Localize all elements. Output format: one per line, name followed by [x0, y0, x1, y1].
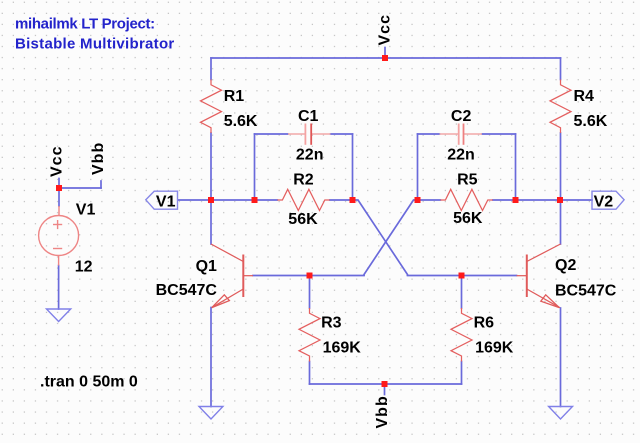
svg-text:169K: 169K: [323, 340, 362, 357]
wire top rail Vcc: [211, 57, 561, 59]
svg-text:22n: 22n: [296, 147, 324, 164]
wire Vbb stub bottom: [384, 384, 386, 395]
wire cross diagonal right-to-left: [364, 200, 418, 275]
wire cross diagonal left-to-right: [353, 200, 408, 275]
wire C2 top right: [482, 133, 516, 135]
junction node R3 top / Q1 base: [307, 273, 313, 279]
svg-text:V2: V2: [594, 194, 614, 211]
svg-text:22n: 22n: [447, 147, 475, 164]
ground V1: [47, 309, 71, 322]
wire Q2 emitter to ground: [560, 308, 562, 407]
svg-text:BC547C: BC547C: [555, 283, 617, 300]
wire C1 top left: [255, 133, 289, 135]
resistor R4: [550, 80, 571, 134]
transistor Q1: [211, 244, 253, 308]
wire R2 right: [330, 199, 353, 201]
svg-text:R1: R1: [224, 88, 245, 105]
resistor R1: [201, 80, 222, 134]
junction node R5/C2 left: [415, 197, 421, 203]
transistor Q2: [517, 244, 561, 308]
junction node Vcc top rail: [382, 55, 388, 61]
svg-text:12: 12: [75, 259, 93, 276]
wire Q2 base rail: [408, 275, 517, 277]
svg-text:Vbb: Vbb: [90, 142, 107, 175]
wire right rail to V2: [516, 199, 593, 201]
junction node V2 collector Q2: [557, 197, 563, 203]
svg-text:5.6K: 5.6K: [224, 113, 258, 130]
svg-text:R3: R3: [321, 315, 342, 332]
wire R1 bottom to V1 node: [210, 133, 212, 200]
svg-text:C1: C1: [298, 108, 319, 125]
svg-text:Vbb: Vbb: [374, 395, 391, 428]
wire C2 top left: [418, 133, 440, 135]
wire R3 top: [309, 276, 311, 309]
svg-text:.tran 0 50m 0: .tran 0 50m 0: [40, 374, 138, 391]
svg-text:56K: 56K: [453, 210, 483, 227]
wire C1 top right: [331, 133, 353, 135]
wire Q1 base rail: [253, 275, 364, 277]
svg-text:56K: 56K: [288, 211, 318, 228]
wire Q2 collector vertical: [560, 200, 562, 244]
wire R5 right: [493, 199, 516, 201]
wire R1 top: [210, 58, 212, 80]
wire Vbb stub left: [100, 181, 102, 188]
junction node Vcc source top: [56, 185, 62, 191]
resistor R5: [440, 189, 493, 210]
junction node V1 collector Q1: [208, 197, 214, 203]
wire bottom rail Vbb: [310, 383, 462, 385]
junction node R2/C1 right: [350, 197, 356, 203]
resistor R2: [277, 189, 330, 210]
net flag V2: [592, 191, 624, 209]
svg-text:Q1: Q1: [196, 258, 217, 275]
svg-text:V1: V1: [156, 194, 176, 211]
svg-text:Bistable Multivibrator: Bistable Multivibrator: [15, 36, 175, 53]
svg-text:mihailmk LT Project:: mihailmk LT Project:: [15, 16, 155, 33]
wire R5 left: [418, 199, 441, 201]
junction node R2/C1 left: [252, 197, 258, 203]
svg-text:V1: V1: [76, 202, 96, 219]
wire R2 left: [255, 199, 278, 201]
wire C2 right vertical: [515, 134, 517, 200]
wire Q1 emitter to ground: [210, 308, 212, 407]
wire C1 right vertical: [352, 134, 354, 200]
wire Vcc label stub left: [58, 179, 60, 189]
svg-text:BC547C: BC547C: [156, 282, 218, 299]
svg-text:Vcc: Vcc: [377, 14, 394, 45]
voltage source V1: [39, 206, 79, 266]
svg-text:Q2: Q2: [555, 257, 576, 274]
wire Vcc stub top: [384, 48, 386, 59]
capacitor C1: [288, 124, 331, 145]
net flag V1: [146, 191, 178, 209]
svg-text:R5: R5: [457, 172, 478, 189]
wire V1 flag to node: [179, 199, 212, 201]
wire R3 bottom: [309, 362, 311, 385]
wire C2 left vertical: [417, 134, 419, 200]
junction node Vbb bottom rail: [382, 381, 388, 387]
wire R4 top: [560, 58, 562, 80]
wire Q1 collector vertical: [210, 200, 212, 244]
wire V1 node rail: [211, 199, 255, 201]
ground Q1: [199, 407, 223, 420]
svg-text:R6: R6: [474, 315, 495, 332]
wire R6 top: [461, 276, 463, 309]
resistor R3: [299, 308, 320, 362]
junction node R5/C2 right: [513, 197, 519, 203]
resistor R6: [451, 308, 472, 362]
junction node R6 top / Q2 base: [459, 273, 465, 279]
svg-text:R2: R2: [293, 172, 314, 189]
svg-text:Vcc: Vcc: [49, 146, 66, 177]
svg-text:R4: R4: [574, 88, 595, 105]
svg-text:169K: 169K: [475, 340, 514, 357]
capacitor C2: [440, 124, 483, 145]
ground Q2: [549, 407, 573, 420]
wire Vcc to Vbb link: [59, 187, 101, 189]
wire R4 bottom: [560, 133, 562, 200]
wire C1 left vertical: [254, 134, 256, 200]
svg-text:5.6K: 5.6K: [574, 113, 608, 130]
svg-text:C2: C2: [451, 108, 472, 125]
wire V1 source top: [58, 188, 60, 206]
wire V1 source bottom: [58, 266, 60, 310]
wire R6 bottom: [461, 362, 463, 385]
